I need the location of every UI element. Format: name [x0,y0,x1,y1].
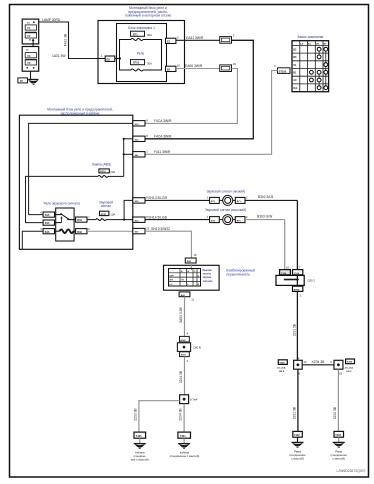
svg-text:2231 5B: 2231 5B [292,406,296,419]
wire horn2 down to C80 [284,220,286,270]
fuse ABS lamp [92,163,116,174]
tap to row4 [123,219,125,221]
svg-text:T402: T402 [294,434,300,437]
svg-text:EA06 3W/R: EA06 3W/R [185,64,203,68]
fuse wave ABS [98,175,108,177]
svg-text:EF1: EF1 [133,33,138,36]
connector C202 [220,62,237,72]
ground tag T405 [134,432,146,438]
svg-text:11: 11 [191,298,194,302]
svg-text:XZ34 3B: XZ34 3B [312,360,326,364]
connector block TL2 [22,47,39,72]
svg-text:SH13 5/W22: SH13 5/W22 [151,227,170,231]
svg-text:Замок зажигания: Замок зажигания [297,35,323,39]
svg-text:Реле звукового сигнала: Реле звукового сигнала [44,201,80,205]
svg-text:16: 16 [286,265,290,269]
wire R2 to connector C202 [176,64,220,69]
relay pin box E [76,227,91,234]
ground tag T403 [334,431,344,437]
wire R1 to connector C201 [176,36,220,41]
wire S349 down to ground [333,369,339,431]
svg-text:30A: 30A [147,62,152,66]
splice S302 [180,395,198,404]
svg-text:10A: 10A [110,170,115,174]
svg-text:ложенный в моторном отсеке: ложенный в моторном отсеке [125,14,172,18]
svg-text:B34: B34 [77,219,82,222]
ground (top-left) [28,79,38,84]
splice down branch to ground [178,404,184,433]
fusible link wave bottom [131,69,143,71]
wire pin C to box edge [22,231,43,249]
svg-text:с массой): с массой) [291,456,304,460]
connector block TL1 [22,19,39,44]
svg-text:F411 3W/R: F411 3W/R [154,150,171,154]
horn 2 (high) [145,208,285,224]
fuse horn [99,201,115,217]
title engine fuse box [125,6,172,18]
svg-text:сигнал: сигнал [101,204,111,208]
relay pin box C [40,227,54,234]
svg-text:(соединение с массой): (соединение с массой) [170,454,200,458]
svg-text:B16: B16 [45,231,50,234]
svg-text:K7w4: K7w4 [190,398,197,402]
svg-text:B7M5: B7M5 [294,289,301,291]
svg-text:Реле: Реле [137,52,145,56]
svg-text:S349: S349 [347,361,353,364]
wire C80 down to splice [292,291,297,360]
svg-text:T403: T403 [335,434,341,437]
combination switch box [164,263,220,290]
svg-text:SH13 5/LGR: SH13 5/LGR [148,196,167,200]
connector ST100 [274,64,292,73]
fuse tag F5 [18,78,28,83]
ignition block inner box [117,24,167,82]
svg-text:LO: LO [169,284,172,286]
relay (horn relay) [44,201,80,241]
ground (frame right) [331,437,348,460]
tag S349 label [345,359,355,373]
svg-text:IG1: IG1 [293,87,298,90]
svg-text:Звуковой сигнал (высокий): Звуковой сигнал (высокий) [205,208,246,212]
svg-text:10A: 10A [110,212,115,216]
wire relay E to row6 [87,230,133,232]
svg-text:2231 5B: 2231 5B [292,323,296,336]
svg-text:100 E: 100 E [279,371,285,373]
svg-text:ние с массой): ние с массой) [131,457,149,461]
splice S349 [334,360,343,375]
svg-text:EF19: EF19 [100,171,106,173]
svg-text:0A03 0.5B: 0A03 0.5B [179,307,183,323]
cab box pin row4 [133,196,168,203]
wire W1 row1 to relay pin A [29,123,133,214]
relay inner box [120,40,162,71]
ground tag T401 [178,432,191,438]
svg-text:LK: LK [300,43,303,45]
svg-text:сигнала: сигнала [203,280,213,283]
svg-text:F4CA 3W/R: F4CA 3W/R [154,134,172,138]
svg-text:16: 16 [194,253,198,257]
svg-text:LJW6D23670Q007: LJW6D23670Q007 [337,469,366,473]
svg-text:F431 3B: F431 3B [64,33,68,46]
svg-text:2234 3B: 2234 3B [178,408,182,421]
svg-text:переключатель: переключатель [226,272,250,276]
svg-text:J/C-#CA: J/C-#CA [345,367,354,370]
svg-text:16: 16 [233,62,237,66]
wire C201 to corner, down to row2 [145,40,253,139]
connector C201 [220,34,235,44]
wire C202 to corner, down to row1 [145,69,237,124]
svg-text:100 F: 100 F [346,371,352,373]
svg-text:C80 B: C80 B [193,345,201,349]
wire switch down to C301 [179,297,189,337]
svg-text:T401: T401 [180,435,186,438]
wire from TL1 to engine box [39,18,106,59]
splice left branch to ground [134,401,180,432]
svg-text:Лампа (ABS): Лампа (ABS) [92,163,112,167]
relay pin box D [76,215,91,222]
pin box L1 [101,54,121,61]
ground tag T402 [293,431,303,437]
svg-text:C80 2: C80 2 [308,279,316,283]
svg-text:SH14 5/LGB: SH14 5/LGB [148,216,167,220]
svg-text:AC: AC [308,42,312,45]
svg-text:C104: C104 [281,272,287,275]
svg-text:2233 3B: 2233 3B [134,408,138,421]
svg-text:B303 G/W: B303 G/W [257,214,273,218]
svg-text:EA31 3W/R: EA31 3W/R [186,36,204,40]
fusible link wave top [131,39,143,41]
ground (cab right) [170,438,200,458]
horn 1 (low) [145,189,297,205]
svg-text:2234 3B: 2234 3B [179,370,183,383]
svg-text:Звуковой сигнал (низкий): Звуковой сигнал (низкий) [207,189,246,193]
svg-text:Блок зажигания 1: Блок зажигания 1 [128,26,155,30]
svg-text:звуков.: звуков. [203,276,212,279]
switch top pin box [185,253,197,263]
row2 interior tap [124,138,133,140]
title cab fuse box [47,108,113,116]
wire relay D through fuse to row5 [87,219,96,221]
pin box R2 [166,64,181,72]
svg-text:1A31 5W: 1A31 5W [52,54,66,58]
svg-text:AC: AC [293,79,297,82]
svg-text:B32: B32 [77,231,82,234]
vertical to ABS fuse [123,139,125,177]
cab box pin row1 [133,119,172,126]
svg-text:10: 10 [304,360,308,364]
cab box pin row2 [133,134,172,141]
tag S348 label [277,360,287,373]
svg-text:ON: ON [316,43,320,45]
svg-text:S348: S348 [280,362,286,365]
wire S348 down to ground [292,369,298,431]
cab box pin row5 [133,215,168,222]
arrow between blocks [32,38,35,46]
svg-text:с массой): с массой) [332,456,345,460]
svg-text:EF23: EF23 [101,214,107,216]
wire row6 to switch [145,231,191,258]
cab box pin row6 [133,226,170,233]
svg-text:15: 15 [339,371,343,375]
relay pin box A [40,210,54,217]
svg-text:Выклю-: Выклю- [203,269,213,272]
svg-text:T405: T405 [136,435,142,438]
engine fuse box outline [98,21,185,84]
wire C301 down to splice S302 [179,357,185,395]
svg-text:LAMP 30RD: LAMP 30RD [42,18,61,22]
svg-text:B302 5/LB: B302 5/LB [258,195,274,199]
wire splice to splice [302,360,334,365]
svg-text:J/C-#CA: J/C-#CA [277,367,286,370]
svg-text:OFF: OFF [169,275,174,277]
svg-text:B10: B10 [45,222,50,225]
fuse EF1 40A [131,31,153,37]
svg-text:B142: B142 [180,339,186,342]
cab box pin row3 [133,150,171,157]
wire ABS fuse to tap vertical [108,175,124,177]
svg-text:C104: C104 [294,272,300,275]
svg-text:23: 23 [146,226,150,230]
svg-text:чатель: чатель [203,273,212,276]
svg-text:F4CA 3W/R: F4CA 3W/R [154,119,172,123]
svg-text:B16: B16 [45,214,50,217]
svg-text:B1M: B1M [181,355,186,357]
splice S348 [294,356,303,375]
ignition switch table [292,41,329,92]
pin box R1 [166,36,180,44]
inline connector C301 [177,336,201,362]
svg-text:2232 5B: 2232 5B [333,406,337,419]
svg-text:EF16: EF16 [133,62,140,65]
cab fuse box outline [19,115,132,249]
row3 interior tap [124,153,133,155]
wire TL2 to ground [30,71,32,79]
switch bottom pin box [179,292,195,302]
ground (cab left) [131,438,149,461]
svg-text:16: 16 [177,64,181,68]
relay pin box B [43,220,54,225]
fuse EF16 30A [131,60,153,66]
wire horn1 down to C80 [296,200,298,269]
svg-text:40A: 40A [147,33,152,37]
wire ST100 down to row3 [145,71,278,155]
switch label [226,268,255,276]
ground (frame left) [289,437,306,460]
wire W2: ABS fuse wire to relay pin B [26,176,99,222]
svg-text:ST100: ST100 [279,70,287,73]
